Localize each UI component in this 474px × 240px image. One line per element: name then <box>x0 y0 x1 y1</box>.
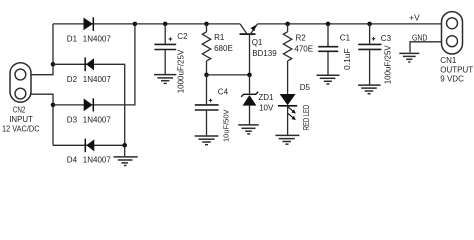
wire CN2 top pin to AC1 bus <box>31 24 53 75</box>
svg-text:CN1: CN1 <box>440 56 457 65</box>
node zener node dot <box>247 73 252 78</box>
ground C2 <box>154 75 176 84</box>
svg-text:RED LED: RED LED <box>302 105 311 131</box>
svg-text:Q1: Q1 <box>252 38 263 47</box>
transistor Q1 BD139 <box>240 24 258 75</box>
ground C1 <box>317 75 340 84</box>
wire base node line <box>207 74 250 76</box>
svg-text:OUTPUT: OUTPUT <box>440 66 473 75</box>
svg-text:C3: C3 <box>381 34 392 43</box>
svg-text:0.1uF: 0.1uF <box>342 48 352 70</box>
svg-text:C2: C2 <box>177 32 188 41</box>
connector CN1 <box>442 12 463 54</box>
ground D5 <box>275 135 299 144</box>
capacitor C3 <box>358 24 381 85</box>
ground output <box>399 53 419 62</box>
node R2 top dot <box>285 22 290 27</box>
diode D2 1N4007 <box>85 57 94 71</box>
label D3 1N4007 <box>67 115 112 124</box>
svg-text:R2: R2 <box>296 33 307 42</box>
wire GND to CN1 bottom pin <box>410 42 442 53</box>
diode D1 1N4007 <box>84 17 94 31</box>
node C2 dot <box>163 22 168 27</box>
svg-text:9 VDC: 9 VDC <box>440 75 464 84</box>
svg-text:470E: 470E <box>294 44 313 53</box>
svg-text:1000uF/25V: 1000uF/25V <box>177 49 186 93</box>
svg-text:1N4007: 1N4007 <box>83 115 112 124</box>
svg-text:CN2: CN2 <box>13 105 26 114</box>
svg-text:C4: C4 <box>218 88 229 97</box>
svg-text:10uF/50V: 10uF/50V <box>222 109 231 142</box>
node C3 dot <box>367 22 372 27</box>
capacitor C1 <box>318 24 338 75</box>
svg-text:D4: D4 <box>67 155 78 164</box>
label CN1 OUTPUT 9 VDC <box>440 56 473 83</box>
svg-text:+V: +V <box>409 13 419 23</box>
node AC1 junction dot <box>51 62 56 67</box>
svg-text:D3: D3 <box>67 115 78 124</box>
wire D2 row <box>53 64 125 145</box>
capacitor C4 <box>195 75 219 135</box>
node bridge + output dot <box>133 22 138 27</box>
wire CN2 bottom pin to AC2 bus <box>31 94 53 145</box>
svg-text:1N4007: 1N4007 <box>83 75 112 84</box>
label D2 1N4007 <box>67 75 112 84</box>
ground bridge minus <box>114 145 138 165</box>
svg-text:BD139: BD139 <box>252 49 277 58</box>
svg-text:D2: D2 <box>67 75 78 84</box>
node C1 dot <box>326 22 331 27</box>
ground C3 <box>358 85 381 94</box>
svg-text:10V: 10V <box>259 104 274 113</box>
resistor R2 470E <box>283 24 291 94</box>
label D1 1N4007 <box>67 35 112 44</box>
svg-text:12 VAC/DC: 12 VAC/DC <box>2 125 40 134</box>
wire main +V rail <box>135 23 240 25</box>
svg-text:680E: 680E <box>214 44 233 53</box>
wire D1 row <box>53 23 135 25</box>
ground ZD1 <box>238 125 259 134</box>
connector CN2 <box>10 63 31 102</box>
resistor R1 680E <box>202 24 210 75</box>
svg-text:ZD1: ZD1 <box>258 93 274 102</box>
node base node dot <box>204 73 209 78</box>
label D4 1N4007 <box>67 155 112 164</box>
node R1 top dot <box>204 22 209 27</box>
wire D4 row <box>53 144 125 146</box>
node AC2 junction dot <box>51 103 56 108</box>
LED D5 RED LED <box>278 94 297 135</box>
svg-text:100uF/25V: 100uF/25V <box>383 45 392 85</box>
ground C4 <box>195 136 219 145</box>
node bridge - output dot <box>122 143 127 148</box>
svg-text:D1: D1 <box>67 35 78 44</box>
svg-text:1N4007: 1N4007 <box>83 35 112 44</box>
wire D3 row <box>53 24 135 105</box>
svg-text:1N4007: 1N4007 <box>83 155 112 164</box>
svg-text:R1: R1 <box>214 33 225 42</box>
svg-text:C1: C1 <box>340 34 351 43</box>
diode D3 1N4007 <box>84 98 94 111</box>
diode D4 1N4007 <box>85 139 94 153</box>
svg-text:D5: D5 <box>300 83 311 92</box>
zener diode ZD1 10V <box>241 75 258 124</box>
capacitor C2 <box>154 24 176 74</box>
svg-text:INPUT: INPUT <box>9 115 33 124</box>
label CN2 INPUT 12 VAC/DC <box>2 105 40 133</box>
svg-text:GND: GND <box>412 34 428 43</box>
